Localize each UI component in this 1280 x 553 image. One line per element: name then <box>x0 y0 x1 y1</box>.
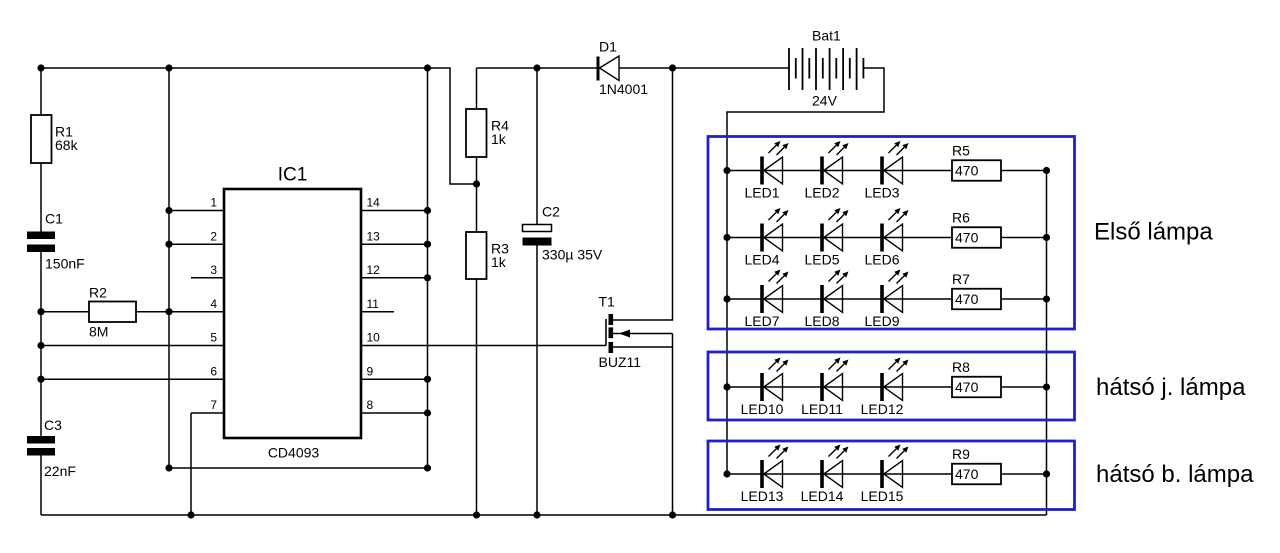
svg-text:470: 470 <box>955 379 979 395</box>
LED LED11 <box>801 358 848 418</box>
svg-text:3: 3 <box>210 263 217 277</box>
resistor R4 1k <box>466 109 509 157</box>
svg-text:D1: D1 <box>599 39 617 55</box>
svg-text:LED13: LED13 <box>741 488 784 504</box>
wire R3 bottom to ground rail <box>476 279 478 515</box>
junction return bus row 3 node <box>1043 295 1050 302</box>
svg-text:LED15: LED15 <box>861 488 904 504</box>
svg-text:13: 13 <box>367 229 381 243</box>
junction pin 4 node <box>165 308 172 315</box>
LED LED14 <box>801 445 849 505</box>
wire IC pin 5 <box>41 345 224 347</box>
junction anode bus row 1 node <box>723 167 730 174</box>
battery Bat1 24V <box>789 28 863 109</box>
LED LED6 <box>864 208 908 268</box>
LED LED10 <box>741 358 789 418</box>
svg-text:R9: R9 <box>952 446 970 462</box>
capacitor C1 150nF <box>27 211 85 272</box>
LED LED8 <box>804 270 848 330</box>
svg-text:LED1: LED1 <box>744 185 779 201</box>
svg-text:24V: 24V <box>812 93 838 109</box>
svg-text:IC1: IC1 <box>278 165 308 186</box>
wire LED row 1 bus <box>727 170 1047 172</box>
resistor R3 1k <box>466 232 509 279</box>
junction pin 12 node <box>424 274 431 281</box>
svg-text:LED12: LED12 <box>861 401 904 417</box>
wire LED row 4 bus <box>727 386 1047 388</box>
junction ground rail R3 node <box>473 511 480 518</box>
LED LED12 <box>861 358 909 418</box>
junction anode bus row 3 node <box>723 295 730 302</box>
wire IC pin 1 <box>169 210 224 212</box>
svg-text:T1: T1 <box>599 294 616 310</box>
junction ground rail C2 node <box>533 511 540 518</box>
svg-text:LED4: LED4 <box>744 252 779 268</box>
resistor R6 value 470 <box>952 210 1001 248</box>
wire IC pin 6 <box>41 378 224 380</box>
wire IC pin 2 <box>169 243 224 245</box>
svg-text:8: 8 <box>367 398 374 412</box>
junction return bus row 1 node <box>1043 167 1050 174</box>
wire top rail segment R4 top to D1 cathode <box>477 67 597 69</box>
wire IC pin 3 stub <box>191 277 224 279</box>
junction pin 8 node <box>424 409 431 416</box>
diode D1 1N4001 <box>598 39 648 98</box>
svg-text:1k: 1k <box>491 254 507 270</box>
wire R2 to IC pin 4 <box>136 311 224 313</box>
wire IC pin 10 to T1 gate <box>361 345 606 347</box>
resistor R8 value 470 <box>952 359 1001 397</box>
svg-text:C2: C2 <box>542 204 560 220</box>
svg-text:LED3: LED3 <box>864 185 899 201</box>
junction pins 9-8 bus end node <box>424 464 431 471</box>
LED LED1 <box>744 141 788 201</box>
junction pin 1 node <box>165 207 172 214</box>
svg-text:1: 1 <box>210 196 217 210</box>
svg-text:22nF: 22nF <box>44 463 76 479</box>
junction top rail C2 branch <box>533 64 540 71</box>
wire IC pin 12 <box>361 277 428 279</box>
wire vertical tying IC pins 14,13,12,9,8 <box>427 68 429 468</box>
resistor R7 value 470 <box>952 271 1001 309</box>
wire IC pin 7 to ground rail <box>191 413 224 515</box>
svg-text:150nF: 150nF <box>45 256 85 272</box>
junction pin 13 node <box>424 241 431 248</box>
resistor R1 68k <box>31 115 79 163</box>
wire left rail vertical <box>40 68 42 515</box>
svg-text:5: 5 <box>210 331 217 345</box>
junction top rail pins 14-12 branch <box>424 64 431 71</box>
junction left rail R2 node <box>37 308 44 315</box>
junction return bus row 2 node <box>1043 234 1050 241</box>
wire LED row 2 bus <box>727 237 1047 239</box>
svg-text:LED10: LED10 <box>741 401 784 417</box>
junction anode bus row 5 node <box>723 470 730 477</box>
wire IC pin 13 <box>361 243 428 245</box>
wire top rail from R1 node to R4/R3 midpoint node <box>41 68 477 184</box>
lamp group frame hatso j. lampa <box>708 352 1075 420</box>
svg-text:LED5: LED5 <box>804 252 839 268</box>
junction anode bus row 4 node <box>723 383 730 390</box>
svg-text:4: 4 <box>210 297 217 311</box>
svg-text:470: 470 <box>955 229 979 245</box>
svg-text:Bat1: Bat1 <box>812 28 841 44</box>
wire R4 bottom to R3 top through supply node <box>476 157 478 232</box>
resistor R5 value 470 <box>952 143 1001 181</box>
svg-text:330µ 35V: 330µ 35V <box>542 247 603 263</box>
junction anode bus row 2 node <box>723 234 730 241</box>
LED LED2 <box>804 141 848 201</box>
LED LED5 <box>804 208 848 268</box>
junction feedback corner node <box>165 464 172 471</box>
svg-text:LED11: LED11 <box>801 401 843 417</box>
svg-text:6: 6 <box>210 364 217 378</box>
svg-text:1k: 1k <box>491 131 507 147</box>
wire R4 top stub <box>476 68 478 109</box>
svg-text:470: 470 <box>955 466 979 482</box>
svg-text:8M: 8M <box>89 324 108 340</box>
LED LED7 <box>744 270 788 330</box>
svg-text:R2: R2 <box>89 285 107 301</box>
svg-text:R6: R6 <box>952 210 970 226</box>
IC U1 IC1 CD4093 body <box>224 165 361 461</box>
junction left rail pin 5 node <box>37 342 44 349</box>
svg-text:14: 14 <box>367 196 381 210</box>
junction top rail T1 drain branch <box>669 64 676 71</box>
svg-text:CD4093: CD4093 <box>268 445 320 461</box>
wire left rail to R2 <box>41 311 89 313</box>
svg-text:10: 10 <box>367 331 381 345</box>
lamp group frame Elso lampa <box>708 137 1075 330</box>
LED LED13 <box>741 445 789 505</box>
svg-text:68k: 68k <box>55 137 79 153</box>
svg-text:470: 470 <box>955 162 979 178</box>
svg-text:1N4001: 1N4001 <box>599 81 648 97</box>
junction pin 14 node <box>424 207 431 214</box>
svg-text:470: 470 <box>955 291 979 307</box>
lamp group frame hatso b. lampa <box>708 441 1075 510</box>
svg-text:C1: C1 <box>45 211 63 227</box>
resistor R9 value 470 <box>952 446 1001 484</box>
wire D1 anode to battery plus <box>619 67 789 69</box>
svg-text:12: 12 <box>367 263 381 277</box>
svg-text:C3: C3 <box>44 417 62 433</box>
wire C2 branch vertical <box>536 68 538 515</box>
svg-text:Első lámpa: Első lámpa <box>1094 219 1213 246</box>
svg-text:R7: R7 <box>952 271 970 287</box>
svg-text:9: 9 <box>367 364 374 378</box>
svg-text:LED2: LED2 <box>804 185 839 201</box>
svg-text:2: 2 <box>210 229 217 243</box>
junction return bus row 4 node <box>1043 383 1050 390</box>
wire lamp anode bus vertical <box>726 171 728 475</box>
LED LED4 <box>744 208 788 268</box>
svg-text:BUZ11: BUZ11 <box>599 354 642 370</box>
svg-text:LED7: LED7 <box>744 313 779 329</box>
transistor Q1 T1 BUZ11 N-channel MOSFET <box>599 68 673 515</box>
resistor R2 8M <box>89 285 136 340</box>
junction return bus row 5 node <box>1043 470 1050 477</box>
junction top rail R1 node <box>37 64 44 71</box>
LED LED15 <box>861 445 909 505</box>
svg-text:R5: R5 <box>952 143 970 159</box>
svg-text:R8: R8 <box>952 359 970 375</box>
junction pin 2 node <box>165 241 172 248</box>
junction R4-R3 supply node <box>473 180 480 187</box>
capacitor C2 330u 35V electrolytic <box>523 204 603 263</box>
svg-text:11: 11 <box>367 297 380 311</box>
wire battery minus down and left into lamp boxes <box>727 68 884 171</box>
svg-text:LED8: LED8 <box>804 313 839 329</box>
wire LED row 5 bus <box>727 473 1047 475</box>
LED LED9 <box>864 270 908 330</box>
junction left rail pin 6 node <box>37 376 44 383</box>
svg-text:LED9: LED9 <box>864 313 899 329</box>
svg-text:hátsó j. lámpa: hátsó j. lámpa <box>1096 374 1246 401</box>
junction ground rail pin 7 node <box>187 511 194 518</box>
wire IC pin 9 <box>361 378 428 380</box>
svg-text:LED6: LED6 <box>864 252 899 268</box>
wire vertical tying IC pins 1,2,4 down to pins 9,8 bus <box>169 68 428 468</box>
wire LED row 3 bus <box>727 298 1047 300</box>
junction top rail pins 1-2 branch <box>165 64 172 71</box>
LED LED3 <box>864 141 908 201</box>
wire IC pin 8 <box>361 412 428 414</box>
junction pin 9 node <box>424 376 431 383</box>
svg-text:hátsó b. lámpa: hátsó b. lámpa <box>1096 461 1254 488</box>
wire lamp return vertical <box>1046 171 1048 516</box>
wire IC pin 11 stub <box>361 311 394 313</box>
wire IC pin 14 <box>361 210 428 212</box>
junction ground rail T1 source node <box>669 511 676 518</box>
capacitor C3 22nF <box>27 417 76 479</box>
wire bottom ground rail <box>41 514 1047 516</box>
svg-text:7: 7 <box>210 398 217 412</box>
svg-text:LED14: LED14 <box>801 488 844 504</box>
